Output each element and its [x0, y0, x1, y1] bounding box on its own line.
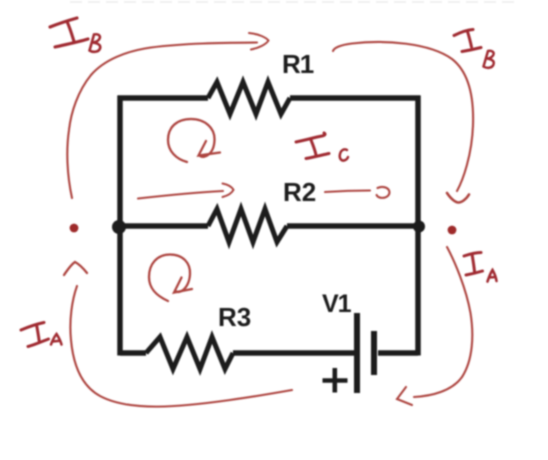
current label I_B (top-right)	[454, 30, 494, 68]
current arrow middle (toward R2, left)	[138, 184, 234, 199]
battery V1 plus polarity mark	[323, 368, 348, 393]
wire right vertical	[415, 96, 421, 356]
red node dot right	[448, 226, 457, 235]
wire top-right segment	[290, 95, 421, 101]
svg-text:V1: V1	[322, 290, 352, 318]
battery V1 short plate	[371, 331, 377, 375]
svg-text:R1: R1	[282, 49, 314, 79]
red node dot left	[70, 224, 79, 233]
caret arrowhead I_A left (pointing up)	[64, 262, 87, 275]
resistor R1	[208, 82, 290, 114]
node junction right	[413, 221, 425, 233]
current label I_A (left)	[21, 323, 62, 347]
node junction left	[112, 220, 126, 234]
resistor R2	[208, 209, 287, 242]
wire bottom-middle segment	[233, 350, 354, 356]
wire left vertical	[117, 96, 123, 356]
label R2	[283, 177, 316, 207]
current arrow I_B top	[67, 33, 268, 198]
wire bottom-left segment	[120, 350, 146, 356]
current label I_A (right)	[464, 253, 497, 282]
current arrow I_A right (down sweep)	[397, 247, 472, 405]
svg-text:R2: R2	[283, 177, 316, 207]
loop arrow mesh 1 (clockwise)	[168, 119, 220, 162]
wire bottom-right segment	[378, 350, 418, 356]
wire middle-right segment	[287, 223, 418, 229]
resistor R3	[146, 337, 233, 369]
label R3	[218, 302, 251, 332]
wire middle-left segment	[118, 223, 208, 229]
faint top border artifact	[70, 1, 520, 3]
battery V1 long plate	[354, 313, 360, 393]
current arrow I_B right (down)	[333, 42, 473, 203]
label V1	[322, 290, 352, 318]
svg-text:R3: R3	[218, 302, 251, 332]
wire top-left segment	[118, 95, 209, 101]
label R1	[282, 49, 314, 79]
current arrow I_A left (big sweep)	[70, 286, 292, 407]
current label I_C	[296, 133, 348, 161]
loop arrow mesh 2 (clockwise)	[149, 255, 192, 302]
current label I_B (top-left)	[50, 18, 100, 52]
current arrow right of R2 (with curl)	[325, 187, 389, 198]
